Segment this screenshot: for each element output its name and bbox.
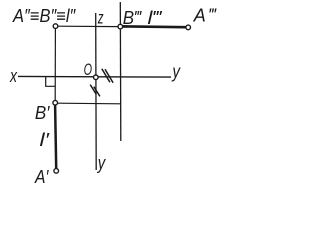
svg-text:B‴: B‴	[123, 8, 143, 28]
node A''=B''=l'' (front view point)	[53, 24, 58, 29]
wire line l' (thick, top view)	[55, 105, 56, 169]
tick marks (equal distance, on x-axis right of O)	[102, 69, 110, 83]
svg-text:y: y	[96, 153, 106, 173]
svg-text:A′: A′	[34, 167, 49, 185]
wire projection line front-to-top	[54, 28, 56, 100]
svg-text:B′: B′	[35, 103, 50, 123]
node B'''	[118, 24, 123, 29]
node B'	[53, 100, 58, 105]
svg-text:O: O	[84, 60, 92, 79]
wire x-axis	[18, 75, 171, 78]
svg-text:y: y	[171, 62, 181, 82]
svg-text:x: x	[9, 66, 18, 86]
svg-text:A‴: A‴	[193, 6, 218, 26]
wire vertical projection line through B'''	[119, 2, 122, 141]
svg-text:z: z	[97, 8, 104, 28]
wire projection line top-to-profile	[58, 102, 121, 105]
node O (origin)	[94, 75, 99, 80]
node A'	[54, 169, 59, 174]
wire line l''' (thick, profile view)	[123, 25, 186, 29]
svg-text:A″≡B″≡l″: A″≡B″≡l″	[12, 6, 76, 26]
right-angle mark	[46, 77, 56, 86]
tick marks (equal distance, on y-axis below O)	[90, 85, 96, 95]
svg-text:l′: l′	[40, 130, 50, 150]
wire z/y vertical axis	[95, 13, 98, 170]
node A'''	[186, 25, 191, 30]
wire projection line front-to-profile	[58, 25, 118, 27]
